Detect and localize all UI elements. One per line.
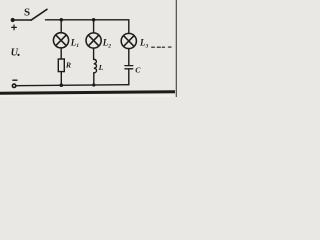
svg-text:U: U [11,47,19,58]
svg-text:C: C [135,65,141,74]
wire: bottom rail [16,85,129,86]
wire: branch 2 drop to lamp L2 [93,20,95,33]
wire: resistor R to bottom rail [60,72,62,86]
lamp L1 [53,33,68,48]
resistor R [58,59,64,72]
wire: capacitor C to bottom rail corner [128,69,130,84]
wire: from + terminal to switch pivot [15,19,32,21]
wire: branch 1 drop to lamp L1 [60,20,62,33]
wire: lamp L3 to capacitor C [128,49,130,65]
node: junction of branch 1 on top rail [60,18,64,22]
node: junction of branch 2 on top rail [92,18,96,22]
lamp L3 [121,33,136,48]
lamp L2 [86,33,101,48]
node: junction of branch 1 on bottom rail [60,83,64,87]
node: - input terminal [12,84,15,87]
inductor L [94,59,97,72]
label: - polarity sign [13,79,17,81]
continuation dashes after L3 [152,46,172,48]
wire: lamp L1 to resistor R [60,48,62,59]
switch S (open blade) [31,9,47,20]
node: junction of branch 2 on bottom rail [92,83,95,86]
node: + input terminal [11,18,15,22]
svg-text:R: R [65,61,71,70]
wire: top rail from switch to corner above C branch [46,19,129,21]
wire: corner drop from top rail to lamp L3 [128,20,130,34]
capacitor C [125,66,133,69]
svg-text:S: S [24,6,30,18]
wire: inductor L to bottom rail [93,73,95,85]
label: + polarity sign [12,25,17,30]
wire: lamp L2 to inductor L [93,48,95,59]
svg-text:L: L [98,63,104,72]
